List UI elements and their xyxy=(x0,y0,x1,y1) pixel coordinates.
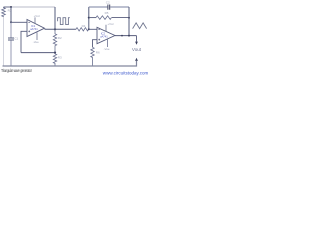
wire node A down to inverting input node xyxy=(10,7,12,22)
wire -Vee pin op-amp IC2 xyxy=(107,39,109,47)
wire Vout upper stub xyxy=(136,36,138,42)
wire R5 right lead xyxy=(112,17,129,19)
resistor R5 xyxy=(96,16,111,20)
wire R1 bottom lead to ground rail xyxy=(3,18,5,66)
Vout upper arrowhead xyxy=(135,42,138,45)
svg-text:C1: C1 xyxy=(14,36,18,40)
svg-text:www.circuitstoday.com: www.circuitstoday.com xyxy=(103,70,149,75)
svg-text:R2: R2 xyxy=(58,36,62,40)
wire feedback rail op-amp1 (node A to output column) xyxy=(11,6,55,8)
wire noninverting input of IC2 xyxy=(93,40,98,48)
wire R5 left lead xyxy=(89,17,96,19)
wire inverting node down to capacitor C1 xyxy=(10,22,12,37)
junction R5 to output column xyxy=(128,17,130,19)
resistor R1 xyxy=(2,7,6,17)
wire +Vcc pin op-amp IC1 xyxy=(34,17,36,23)
junction divider node xyxy=(54,52,56,54)
wire op-amp2 output xyxy=(115,35,137,37)
op-amp IC1 plus pin mark xyxy=(28,30,30,32)
op-amp IC1 triangle xyxy=(27,20,45,37)
svg-text:C2: C2 xyxy=(106,1,110,5)
svg-text:R6: R6 xyxy=(96,50,100,54)
wire inverting node to op-amp IC2 xyxy=(89,28,98,30)
junction R5 tap xyxy=(88,17,90,19)
svg-text:+Vcc: +Vcc xyxy=(34,14,41,18)
capacitor C2 xyxy=(108,5,110,10)
resistor R2 xyxy=(53,29,56,52)
svg-text:R4: R4 xyxy=(82,24,86,28)
junction output wire xyxy=(121,35,123,37)
junction node A xyxy=(10,6,12,8)
wire inverting input of IC1 xyxy=(11,21,27,23)
svg-text:+Vcc: +Vcc xyxy=(107,22,114,26)
wire feedback rail op-amp2 (right of C2) xyxy=(110,6,129,8)
op-amp IC2 plus pin mark xyxy=(98,39,100,41)
svg-text:Vout: Vout xyxy=(132,47,142,52)
svg-text:-Vee: -Vee xyxy=(104,47,110,51)
svg-text:-Vee: -Vee xyxy=(33,40,39,44)
resistor R4 xyxy=(76,28,88,31)
resistor R6 xyxy=(91,47,94,66)
resistor R3 xyxy=(53,53,56,66)
svg-text:uA741: uA741 xyxy=(100,35,108,39)
wire output node up to feedback rail xyxy=(54,7,56,29)
op-amp IC1 minus pin mark xyxy=(28,21,30,23)
wire inverting node up to feedback branches xyxy=(88,7,90,29)
wire feedback column down to output xyxy=(128,7,130,36)
triangular wave symbol xyxy=(133,23,147,29)
wire -Vee pin op-amp IC1 xyxy=(36,32,38,40)
wire Vout lower stub and ground rail xyxy=(3,61,137,66)
square wave symbol xyxy=(58,18,70,25)
wire +Vcc pin op-amp IC2 xyxy=(105,25,107,32)
capacitor C1 xyxy=(8,38,14,40)
op-amp IC2 minus pin mark xyxy=(98,28,100,30)
svg-text:uA741: uA741 xyxy=(30,27,38,31)
wire C1 bottom lead to ground rail xyxy=(10,40,12,66)
wire divider rail to R2/R3 node xyxy=(21,52,55,54)
junction inverting node op-amp2 xyxy=(88,28,90,30)
wire feedback rail op-amp2 (left of C2) xyxy=(89,6,108,8)
junction output/feedback column xyxy=(128,35,130,37)
svg-text:Triangular wave generator: Triangular wave generator xyxy=(1,68,32,73)
svg-text:R5: R5 xyxy=(105,11,109,15)
op-amp IC2 triangle xyxy=(97,27,115,43)
wire noninverting input of IC1 xyxy=(21,31,27,52)
wire feedback rail op-amp1 (left segment above R1) xyxy=(4,6,12,8)
junction output node op-amp1 xyxy=(54,28,56,30)
svg-text:R3: R3 xyxy=(58,56,62,60)
Vout lower arrowhead xyxy=(135,58,138,61)
wire op-amp1 output xyxy=(45,28,77,30)
junction inverting input node xyxy=(10,21,12,23)
